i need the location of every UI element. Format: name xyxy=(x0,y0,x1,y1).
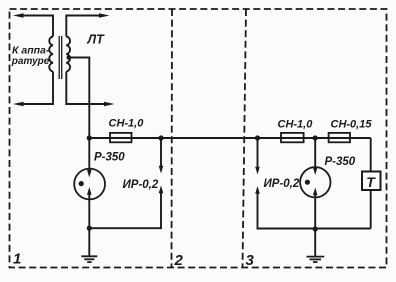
node junction arrester branch section 3 xyxy=(313,135,318,140)
node junction ground section 3 xyxy=(313,226,318,231)
svg-text:СН-0,15: СН-0,15 xyxy=(331,119,373,131)
wire: telephone set to earth bus xyxy=(370,190,372,229)
spark gap IR-0,2 section 3: lower electrode xyxy=(258,193,371,229)
node junction IR branch section 3 xyxy=(255,135,260,140)
arrowhead right bottom xyxy=(104,102,115,107)
wire: bottom-left line to equipment xyxy=(22,72,53,105)
svg-text:3: 3 xyxy=(246,252,255,269)
node junction IR branch section 1 xyxy=(158,135,163,140)
ground section 3 xyxy=(314,229,316,256)
svg-text:ИР-0,2: ИР-0,2 xyxy=(264,178,300,190)
section divider 2-3 xyxy=(243,9,247,268)
arrester R-350 section 3: bottom electrode xyxy=(314,195,316,230)
arrester R-350 section 1: top electrode xyxy=(88,138,90,170)
svg-text:Т: Т xyxy=(366,174,376,190)
arrester R-350 section 1: gas dot xyxy=(79,181,84,186)
wire: secondary top output xyxy=(66,16,101,37)
node: winding centre tap xyxy=(67,55,72,60)
transformer LT primary winding (left) xyxy=(49,37,53,72)
telephone set T box xyxy=(362,172,381,191)
transformer LT secondary winding (right) xyxy=(66,37,70,72)
arrowhead left top xyxy=(13,13,24,18)
wire: main line bus xyxy=(89,137,370,139)
ground section 1 xyxy=(88,228,90,256)
fuse SN-1,0 section 3 xyxy=(281,133,304,142)
svg-text:СН-1,0: СН-1,0 xyxy=(109,118,145,130)
svg-text:Р-350: Р-350 xyxy=(94,152,125,164)
section divider 1-2 xyxy=(171,9,174,268)
arrester R-350 section 1: bottom electrode xyxy=(88,195,90,229)
wire: centre tap down to line bus xyxy=(67,58,89,139)
spark gap IR-0,2 section 1: upper electrode xyxy=(160,138,162,167)
arrester R-350 section 1: circle xyxy=(74,169,105,200)
svg-text:Р-350: Р-350 xyxy=(325,156,356,168)
spark gap IR-0,2 section 1: lower electrode xyxy=(89,193,161,229)
wire: top-left line to equipment xyxy=(22,16,53,37)
svg-text:ЛТ: ЛТ xyxy=(87,33,106,47)
fuse SN-0,15 section 3 xyxy=(329,133,350,142)
node junction ground section 1 xyxy=(87,226,92,231)
svg-text:1: 1 xyxy=(13,251,21,268)
svg-text:К аппа-: К аппа- xyxy=(12,45,50,57)
arrowhead right top xyxy=(99,13,110,18)
node junction at tap/bus xyxy=(87,135,92,140)
fuse SN-1,0 section 1 xyxy=(110,133,132,142)
wire: bus to telephone set xyxy=(370,138,372,171)
svg-text:СН-1,0: СН-1,0 xyxy=(278,119,314,131)
wire: secondary bottom output xyxy=(66,72,106,105)
arrester R-350 section 3: circle xyxy=(300,167,330,197)
svg-text:2: 2 xyxy=(174,252,184,269)
transformer core xyxy=(58,36,60,79)
arrester R-350 section 3: top electrode xyxy=(314,138,316,168)
arrowhead left bottom xyxy=(13,102,24,107)
arrester R-350 section 3: gas dot xyxy=(305,180,310,185)
svg-text:ИР-0,2: ИР-0,2 xyxy=(123,179,159,191)
spark gap IR-0,2 section 3: upper electrode xyxy=(257,138,259,168)
svg-text:ратуре: ратуре xyxy=(11,56,50,67)
